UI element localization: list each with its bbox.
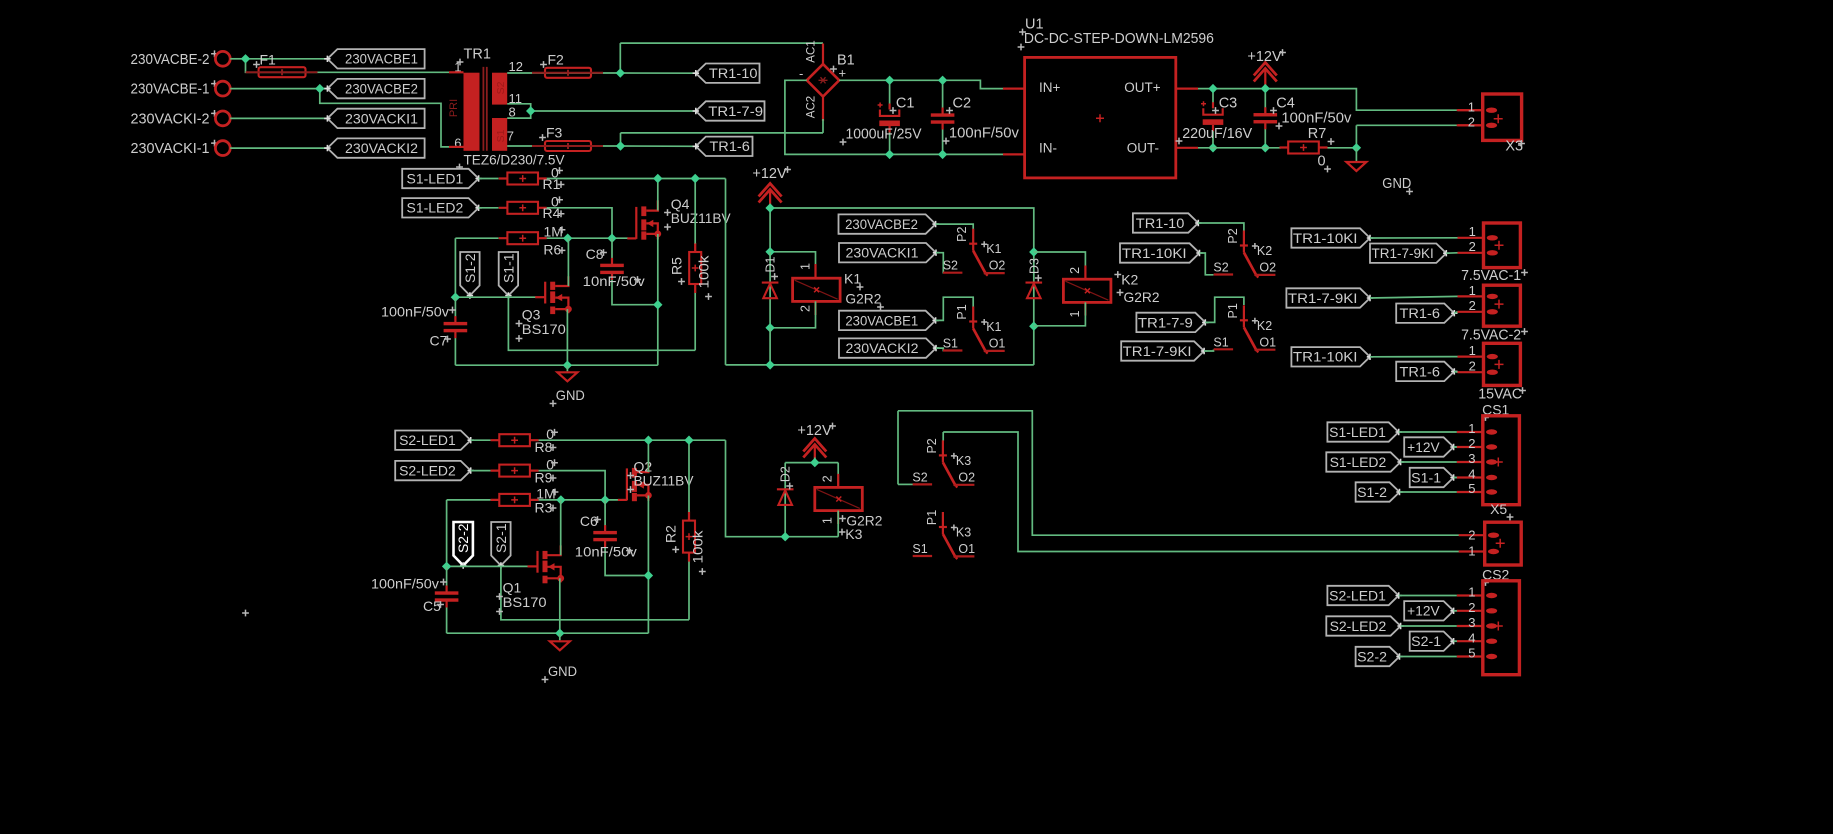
wire R5 top — [694, 179, 696, 244]
wire K3 P2 stub — [942, 432, 944, 441]
junction — [563, 234, 572, 243]
wire TR1-10KI to K2 S2 — [1200, 253, 1214, 275]
wire GND stub — [1355, 148, 1357, 161]
wire TR1-10 to K2 P2 — [1198, 223, 1244, 231]
net label TR1-10KI — [1291, 347, 1373, 366]
wire Q4 source down — [657, 234, 659, 365]
svg-text:S2: S2 — [912, 470, 927, 484]
svg-text:2: 2 — [1068, 267, 1082, 274]
+12V supply symbol K1 — [759, 184, 782, 209]
net label S2-2 — [1356, 647, 1403, 666]
relay coil K1 — [793, 278, 841, 301]
net label TR1-7-9 — [1136, 313, 1208, 332]
transformer TR1 secondary winding S1 — [492, 118, 507, 151]
net label S1-2 — [1356, 482, 1403, 501]
wire S2-LED2 to R9 — [471, 470, 491, 472]
svg-text:2: 2 — [1469, 298, 1476, 313]
svg-text:230VACKI1: 230VACKI1 — [846, 246, 919, 261]
connector X5 — [1459, 522, 1522, 565]
ground symbol top — [1346, 162, 1366, 171]
wire +12V rail K3 — [785, 462, 838, 464]
wire rail down right side — [725, 179, 727, 365]
svg-text:S1-2: S1-2 — [463, 254, 478, 284]
capacitor C5 — [435, 586, 459, 608]
svg-text:230VACKI-2: 230VACKI-2 — [131, 110, 210, 127]
svg-text:100nF/50v: 100nF/50v — [371, 576, 439, 592]
net label S2-2 — [454, 522, 473, 569]
fuse F3 — [532, 141, 603, 151]
relay contact K1 P1-S1-O1 — [943, 307, 1005, 354]
wire drain rail S2 — [539, 439, 726, 441]
svg-text:230VACKI2: 230VACKI2 — [846, 341, 919, 356]
junction — [938, 150, 947, 159]
svg-text:P2: P2 — [925, 438, 939, 453]
svg-text:C1: C1 — [896, 96, 915, 112]
junction — [1352, 143, 1361, 152]
pad 230VACKI-1 — [215, 141, 230, 156]
wire TR1 pin 12 through F2 — [507, 72, 620, 74]
wire pad KI-2 to 230VACKI1 label — [230, 117, 327, 119]
net label 230VACBE1 — [839, 311, 939, 330]
wire C6 bottom to Q2 source — [605, 541, 648, 576]
wire K3 coil pin 2 — [837, 463, 839, 488]
net label TR1-7-9 — [693, 101, 765, 120]
junction — [938, 76, 947, 85]
wire TR1-6 to 7.5VAC-2 pin 2 — [1454, 312, 1457, 313]
origin cross U1 — [1096, 114, 1104, 122]
svg-text:AC2: AC2 — [806, 96, 818, 118]
svg-text:100nF/50v: 100nF/50v — [381, 304, 449, 320]
svg-text:+12V: +12V — [1407, 604, 1439, 619]
pin stub K3 coil — [837, 474, 839, 524]
wire TR1-10KI to 7.5VAC-1 pin 1 — [1370, 237, 1458, 239]
svg-text:P2: P2 — [1226, 228, 1240, 243]
wire to TR1-7-9 label — [531, 110, 696, 112]
origin cross 230VACKI-1 — [211, 140, 218, 147]
junction — [241, 54, 250, 63]
connector X3 — [1457, 94, 1522, 140]
svg-text:K1: K1 — [844, 271, 861, 287]
wire S1-LED2 to R4 — [479, 207, 499, 209]
net label 230VACBE2 — [324, 79, 424, 98]
wire R2 bottom lead — [688, 561, 690, 620]
svg-text:IN-: IN- — [1039, 140, 1057, 155]
junction — [765, 247, 774, 256]
diode D1 — [762, 283, 779, 299]
wire R9 to Q2 gate junction — [539, 471, 606, 500]
wire Q3 source down — [566, 309, 568, 365]
svg-text:1: 1 — [1468, 585, 1475, 600]
net label S1-LED1 — [1327, 422, 1402, 441]
svg-text:230VACKI1: 230VACKI1 — [345, 111, 418, 126]
junction — [555, 629, 564, 638]
diode D3 — [1026, 283, 1043, 299]
svg-text:D2: D2 — [779, 466, 793, 482]
net label TR1-7-9KI — [1121, 341, 1207, 360]
junction — [1029, 247, 1038, 256]
svg-text:O2: O2 — [958, 470, 975, 484]
net label TR1-6 — [693, 137, 753, 156]
wire top rail to bridge AC1 — [620, 42, 823, 44]
wire pad BE-1 to 230VACBE2 label — [230, 88, 327, 90]
wire +12V stem K3 — [814, 458, 816, 463]
svg-text:P1: P1 — [955, 304, 969, 319]
wire K3 S2 up — [897, 411, 899, 485]
svg-text:2: 2 — [1469, 359, 1476, 374]
relay contact K3 P1-S1-O1 — [913, 512, 975, 559]
junction — [442, 562, 451, 571]
svg-text:7.5VAC-1: 7.5VAC-1 — [1461, 268, 1521, 284]
svg-text:C6: C6 — [580, 513, 598, 529]
relay coil K3 — [815, 487, 863, 510]
ground symbol S2 — [550, 641, 570, 650]
pin numbers CS1 — [1468, 421, 1475, 496]
svg-text:K3: K3 — [845, 526, 862, 542]
capacitor C1 — [878, 103, 900, 133]
wire +12V rail to D3 top — [770, 208, 1034, 252]
net label S2-1 — [491, 522, 510, 569]
svg-text:P1: P1 — [925, 510, 939, 525]
wire sense row S1 — [455, 296, 536, 298]
net label TR1-10 — [1133, 213, 1202, 232]
wire GND stub S1 — [566, 365, 568, 371]
capacitor C3 — [1201, 101, 1223, 131]
wire to bridge AC2 — [621, 132, 824, 134]
svg-text:K2: K2 — [1257, 319, 1272, 333]
wire R6 right to Q4 gate — [547, 237, 628, 239]
svg-text:TR1-7-9KI: TR1-7-9KI — [1372, 246, 1434, 261]
pin numbers CS2 — [1468, 585, 1475, 661]
svg-text:TR1-7-9KI: TR1-7-9KI — [1288, 291, 1358, 306]
net label 230VACBE2 — [839, 214, 939, 233]
junction — [885, 76, 894, 85]
svg-text:TR1-6: TR1-6 — [1400, 306, 1441, 321]
svg-text:O2: O2 — [989, 259, 1006, 273]
relay contact K2 P1-S1-O1 — [1214, 305, 1276, 352]
junction — [684, 436, 693, 445]
net label S2-LED2 — [1326, 616, 1404, 635]
junction — [691, 174, 700, 183]
transformer TR1 primary winding — [464, 73, 480, 151]
wire C5 top — [446, 566, 448, 592]
svg-text:TR1-6: TR1-6 — [1400, 364, 1441, 379]
wire junction to X3 pin 2 row — [1355, 125, 1357, 148]
svg-text:C4: C4 — [1276, 96, 1295, 112]
svg-text:S2-LED1: S2-LED1 — [399, 433, 456, 448]
resistor R1 — [499, 173, 547, 185]
wire bridge minus to IN- rail — [785, 80, 1012, 154]
wire S1-LED2 to CS1 pin 3 — [1401, 461, 1457, 463]
svg-text:2: 2 — [1468, 600, 1475, 615]
net label TR1-7-9KI — [1286, 288, 1373, 307]
svg-text:C2: C2 — [953, 96, 972, 112]
wire TR1-7-9KI to 7.5VAC-2 pin 1 — [1370, 296, 1458, 298]
+12V supply symbol K3 — [803, 439, 826, 464]
pin stub OUT- — [1176, 147, 1198, 149]
wire down to sense row S2 — [446, 500, 448, 567]
svg-text:S1: S1 — [1213, 335, 1228, 349]
svg-text:4: 4 — [1468, 467, 1475, 482]
svg-text:P1: P1 — [1226, 303, 1240, 318]
junction — [810, 458, 819, 467]
net label TR1-10 — [693, 64, 760, 83]
svg-text:230VACBE-1: 230VACBE-1 — [131, 81, 210, 98]
wire TR1 pin 7 through F3 — [507, 145, 620, 147]
origin cross F1 — [253, 61, 260, 68]
net label +12V — [1404, 437, 1457, 456]
wire to K1 coil pin 1 — [770, 252, 815, 278]
wire TR1-6 to 15VAC pin 2 — [1454, 370, 1457, 373]
wire Q1 drain up — [560, 500, 562, 555]
wire down to sense row — [454, 238, 456, 297]
bridge rectifier B1 — [807, 44, 839, 122]
svg-text:+12V: +12V — [1247, 49, 1282, 65]
resistor R6 — [499, 232, 547, 244]
wire to X3 pin 2 — [1356, 124, 1458, 126]
svg-text:4: 4 — [1468, 630, 1475, 645]
svg-text:1: 1 — [1469, 224, 1476, 239]
svg-text:K3: K3 — [956, 526, 971, 540]
junction — [781, 532, 790, 541]
svg-text:3: 3 — [1468, 451, 1475, 466]
svg-text:C5: C5 — [423, 598, 441, 614]
net label TR1-7-9KI — [1370, 244, 1450, 263]
wire Q3 drain up — [567, 238, 569, 286]
net label S1-LED2 — [402, 198, 482, 217]
svg-text:TR1-7-9KI: TR1-7-9KI — [1123, 344, 1192, 359]
svg-text:2: 2 — [1469, 239, 1476, 254]
svg-text:AC1: AC1 — [806, 40, 818, 62]
svg-text:PRI: PRI — [448, 99, 460, 117]
svg-text:TR1-7-9: TR1-7-9 — [1138, 315, 1193, 330]
pin stub TR1-1 — [449, 71, 464, 73]
wire C8 bottom to Q4 source — [612, 274, 658, 305]
wire TR1-7-9KI to 7.5VAC-1 pin 2 — [1446, 252, 1457, 254]
wire pad BE-2 to junction — [230, 58, 245, 60]
svg-text:BUZ11BV: BUZ11BV — [634, 473, 695, 489]
junction — [653, 174, 662, 183]
wire S1-LED1 to R1 — [479, 178, 499, 180]
svg-text:5: 5 — [1468, 481, 1475, 496]
svg-text:220uF/16V: 220uF/16V — [1182, 126, 1252, 142]
wire D1 bottom to rail — [769, 328, 771, 365]
wire 230VACKI2 to K1 S1 — [936, 348, 944, 350]
net label S1-1 — [499, 252, 518, 299]
junction — [1261, 84, 1270, 93]
net label S1-LED2 — [1326, 452, 1404, 471]
wire C6 top — [604, 500, 606, 531]
wire C1 bottom — [889, 127, 891, 155]
wire C3 top — [1212, 89, 1214, 109]
svg-text:1000uF/25V: 1000uF/25V — [846, 127, 922, 143]
wire S1-LED1 to CS1 pin 1 — [1399, 431, 1457, 433]
svg-text:TR1-10KI: TR1-10KI — [1293, 231, 1358, 246]
pin stub IN- — [1003, 153, 1025, 155]
ground symbol S1 — [557, 372, 577, 381]
wire through D2 — [784, 463, 786, 537]
svg-text:230VACKI-1: 230VACKI-1 — [131, 140, 210, 157]
svg-text:Q3: Q3 — [522, 307, 541, 323]
svg-text:S1-LED2: S1-LED2 — [1330, 455, 1387, 470]
resistor R3 — [491, 494, 539, 506]
connector 15VAC — [1458, 343, 1521, 385]
svg-text:G2R2: G2R2 — [845, 290, 881, 306]
svg-text:GND: GND — [548, 663, 577, 679]
svg-text:C3: C3 — [1219, 96, 1238, 112]
svg-text:7: 7 — [507, 129, 514, 144]
svg-text:K3: K3 — [956, 454, 971, 468]
wire C7 bottom — [454, 331, 456, 365]
origin cross 230VACBE-2 — [211, 50, 218, 57]
wire GND rail S2 — [447, 632, 649, 634]
svg-text:K2: K2 — [1257, 244, 1272, 258]
svg-text:2: 2 — [1468, 436, 1475, 451]
wire TR1-7-9 to K2 P1 — [1205, 297, 1244, 322]
svg-text:S2: S2 — [943, 259, 958, 273]
svg-text:K1: K1 — [986, 320, 1001, 334]
capacitor C6 — [593, 525, 617, 547]
wire K2 coil pin 1 to D3 bottom — [1034, 302, 1086, 325]
net label TR1-10KI — [1291, 228, 1373, 247]
wire +drain rail S1 — [547, 178, 726, 180]
wire AC2 stub — [822, 119, 824, 133]
capacitor C2 — [931, 108, 955, 130]
origin cross F2 — [540, 61, 547, 68]
origin cross 230VACKI-2 — [211, 110, 218, 117]
transistor Q3 — [535, 276, 572, 314]
junction — [765, 203, 774, 212]
svg-text:Q1: Q1 — [503, 580, 522, 596]
net label TR1-6 — [1396, 362, 1457, 381]
svg-text:S2-LED2: S2-LED2 — [1330, 619, 1387, 634]
capacitor C8 — [600, 258, 624, 280]
wire Q2 source down — [647, 496, 649, 634]
wire C8 top — [611, 238, 613, 264]
wire TR1 pins 11 and 8 — [507, 104, 531, 118]
wire S2-1 down to R2 bottom — [501, 566, 689, 620]
net label S2-LED1 — [395, 431, 474, 450]
wire GND rail S1 — [455, 364, 657, 366]
svg-text:1: 1 — [1468, 544, 1475, 559]
svg-text:GND: GND — [556, 387, 585, 403]
net label S2-LED2 — [395, 461, 474, 480]
wire junction to 230VACBE1 label — [246, 58, 328, 60]
svg-text:10nF/50v: 10nF/50v — [583, 273, 645, 289]
junction — [644, 571, 653, 580]
relay contact K1 P2-S2-O2 — [943, 229, 1005, 276]
svg-text:12: 12 — [509, 59, 523, 74]
wire rail to D2 bottom and K3 coil pin 1 — [726, 440, 839, 537]
svg-text:TR1-10: TR1-10 — [709, 66, 758, 81]
svg-text:100k: 100k — [689, 529, 705, 563]
svg-text:7.5VAC-2: 7.5VAC-2 — [1461, 327, 1521, 343]
wire S2-2 to CS2 pin 5 — [1400, 656, 1457, 658]
svg-text:OUT-: OUT- — [1127, 140, 1159, 155]
net label 230VACKI1 — [839, 243, 939, 262]
wire Q2 drain up — [647, 440, 649, 472]
junction — [600, 495, 609, 504]
svg-text:K2: K2 — [1121, 271, 1138, 287]
svg-text:1M: 1M — [544, 224, 563, 240]
junction — [315, 84, 324, 93]
wire bottom rail K1 — [726, 364, 1034, 366]
wire C1 top — [889, 80, 891, 109]
wire S1-2 to CS1 pin 5 — [1400, 491, 1457, 493]
wire R6 left — [455, 237, 498, 239]
relay coil K2 — [1063, 279, 1111, 302]
wire junction down to F1 to TR1 pin 1 — [246, 59, 450, 73]
wire C7 top — [454, 297, 456, 323]
wire OUT+ to X3 pin 1 — [1198, 89, 1458, 111]
svg-text:230VACKI2: 230VACKI2 — [345, 141, 418, 156]
wire 230VACBE2 to K1 P2 — [936, 224, 974, 229]
junction — [556, 495, 565, 504]
capacitor C4 — [1254, 107, 1278, 129]
svg-text:230VACBE1: 230VACBE1 — [845, 313, 918, 328]
connector 7.5VAC-1 — [1458, 223, 1521, 268]
resistor R2 — [683, 512, 695, 562]
wire GND stub S2 — [559, 633, 561, 640]
svg-text:S2-1: S2-1 — [494, 524, 509, 554]
svg-text:+: + — [839, 66, 847, 81]
svg-text:DC-DC-STEP-DOWN-LM2596: DC-DC-STEP-DOWN-LM2596 — [1024, 30, 1214, 47]
svg-text:2: 2 — [798, 305, 812, 312]
wire 230VACBE1 to K1 P1 — [936, 297, 974, 320]
wire K3 S2 to X5 pin 2 — [898, 411, 1459, 535]
svg-text:100nF/50v: 100nF/50v — [949, 126, 1020, 142]
svg-text:S2: S2 — [1213, 261, 1228, 275]
svg-text:6: 6 — [454, 136, 461, 151]
svg-text:R2: R2 — [663, 525, 679, 543]
svg-text:D3: D3 — [1027, 258, 1041, 274]
net label 230VACKI2 — [324, 138, 424, 157]
svg-text:S2-LED1: S2-LED1 — [1329, 588, 1386, 603]
junction — [607, 234, 616, 243]
net label S2-1 — [1410, 632, 1457, 651]
net label 230VACKI1 — [324, 109, 424, 128]
svg-text:TR1-10: TR1-10 — [1136, 216, 1185, 231]
transistor Q2 — [618, 462, 652, 501]
wire R7 to junction — [1328, 147, 1357, 149]
wire S2-LED2 to CS2 pin 3 — [1401, 625, 1457, 627]
svg-text:1: 1 — [1068, 310, 1082, 317]
wire bridge plus to IN+ — [839, 80, 1012, 88]
svg-text:1: 1 — [1468, 421, 1475, 436]
svg-text:OUT+: OUT+ — [1124, 80, 1160, 95]
capacitor C7 — [444, 316, 468, 338]
svg-text:1: 1 — [798, 263, 812, 270]
wire TR1-10KI to 15VAC pin 1 — [1370, 356, 1458, 358]
wire Q4 drain up — [657, 179, 659, 211]
svg-text:1: 1 — [1469, 343, 1476, 358]
svg-text:S1-LED2: S1-LED2 — [407, 201, 464, 216]
svg-text:2: 2 — [1468, 115, 1475, 130]
pin stub X3-1 — [1458, 109, 1483, 111]
wire R3 left — [447, 499, 491, 501]
svg-text:S2-2: S2-2 — [456, 524, 471, 554]
svg-text:F2: F2 — [548, 52, 565, 68]
origin cross F3 — [539, 134, 546, 141]
net label S1-2 — [460, 252, 479, 299]
svg-text:S1-LED1: S1-LED1 — [1329, 425, 1386, 440]
junction — [644, 436, 653, 445]
resistor R7 — [1280, 142, 1328, 154]
wire TR1-7-9KI to K2 S1 — [1204, 350, 1213, 352]
wire K3 S2 bar link — [898, 483, 913, 485]
wire Q1 source down — [559, 578, 561, 633]
svg-text:S1-1: S1-1 — [501, 254, 516, 284]
svg-text:GND: GND — [1382, 176, 1411, 192]
